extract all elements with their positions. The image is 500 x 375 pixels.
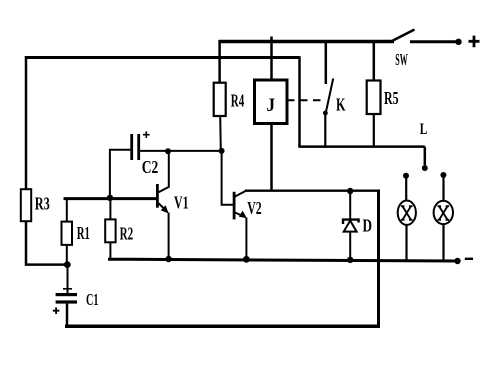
wire R5 bottom lead <box>373 114 375 147</box>
svg-text:V1: V1 <box>174 193 189 213</box>
switch K blade <box>325 79 333 115</box>
switch SW blade <box>391 30 415 42</box>
minus polarity C1 <box>63 288 72 290</box>
svg-text:C1: C1 <box>86 290 99 309</box>
node lamp2 contact <box>440 172 446 178</box>
lamp X1 <box>398 201 416 225</box>
node junction base/C2/R2 <box>107 195 113 201</box>
node V2 emitter junction <box>243 256 250 263</box>
svg-text:C2: C2 <box>142 157 159 177</box>
wire R1 bottom lead <box>66 245 68 265</box>
wire V2 base lead <box>222 151 233 205</box>
svg-text:SW: SW <box>395 50 408 69</box>
wire V2 collector rail <box>245 189 379 191</box>
svg-text:K: K <box>336 94 346 114</box>
resistor R1 <box>62 222 73 245</box>
svg-text:J: J <box>267 95 276 116</box>
node V1 emitter junction <box>165 256 171 262</box>
resistor R4 <box>214 83 226 116</box>
wire top positive rail <box>219 40 394 44</box>
wire right vertical <box>377 190 380 327</box>
switch L common drop <box>424 147 427 165</box>
svg-text:R2: R2 <box>120 224 134 244</box>
wire lamp2 bottom lead <box>442 224 444 261</box>
wire V2 emitter lead <box>245 218 247 261</box>
svg-text:V2: V2 <box>247 198 261 218</box>
transistor V1 emitter with arrow <box>159 203 167 211</box>
transistor V1 bar <box>156 184 159 208</box>
wire V1 base rail <box>64 197 158 200</box>
node SW right terminal dot <box>455 39 461 45</box>
svg-text:D: D <box>363 216 373 236</box>
transistor V1 collector lead <box>159 151 169 192</box>
resistor R5 <box>367 81 381 115</box>
wire J bottom lead <box>270 124 273 191</box>
transistor V2 emitter with arrow <box>235 213 244 217</box>
svg-text:L: L <box>420 121 428 138</box>
diode D bottom lead <box>349 232 351 260</box>
wire bottom negative rail <box>108 259 457 261</box>
relay J box <box>255 80 288 124</box>
wire relay contact rail <box>298 145 425 148</box>
resistor R3 <box>21 189 31 221</box>
node junction R3/R1/C1 <box>64 261 71 268</box>
wire V1 emitter lead <box>168 213 170 260</box>
wire bottom return <box>65 325 380 329</box>
switch SW right contact wire <box>410 40 457 43</box>
capacitor C1 <box>56 293 77 296</box>
node K blade pivot <box>323 111 328 116</box>
wire second rail drop <box>298 56 301 146</box>
diode D triangle <box>344 221 357 232</box>
svg-text:R3: R3 <box>35 194 50 214</box>
node junction R4/V2 base <box>219 148 225 154</box>
dashed link J to K <box>287 99 326 101</box>
capacitor C2 <box>130 134 133 160</box>
wire lamp2 top lead <box>442 175 444 201</box>
diode D cathode bar <box>343 220 359 224</box>
transistor V2 bar <box>233 192 236 220</box>
svg-text:R5: R5 <box>384 88 399 108</box>
wire R4 top lead <box>218 40 221 83</box>
node diode top junction <box>347 188 353 194</box>
svg-text:R1: R1 <box>77 223 90 243</box>
plus polarity C2 <box>143 131 150 138</box>
plus terminal symbol <box>469 36 480 48</box>
capacitor C2 left lead <box>110 150 130 198</box>
minus terminal symbol <box>465 258 473 260</box>
wire K upper contact <box>325 40 328 84</box>
wire left vertical to R3 <box>25 56 28 189</box>
wire R2 top lead <box>109 199 111 220</box>
plus polarity C1 <box>53 307 60 314</box>
capacitor C1 bottom lead <box>66 304 69 327</box>
node lamp1 contact <box>403 173 409 179</box>
svg-text:R4: R4 <box>231 91 244 111</box>
node L common contact <box>422 165 428 171</box>
wire R3 bottom lead <box>26 221 66 264</box>
wire R5 top lead <box>373 40 376 81</box>
node diode bottom junction <box>347 257 353 263</box>
node negative terminal dot <box>454 258 460 264</box>
wire lamp1 bottom lead <box>405 225 407 261</box>
diode D top lead <box>349 191 351 220</box>
wire second rail <box>25 56 300 59</box>
capacitor C1 top lead <box>67 265 69 293</box>
node junction V1 collector <box>165 148 171 154</box>
wire K lower lead <box>324 113 326 148</box>
lamp X2 <box>434 201 453 224</box>
transistor V2 collector lead <box>235 191 246 197</box>
wire R2 bottom lead <box>109 242 111 259</box>
resistor R2 <box>105 219 115 242</box>
wire C2 right lead <box>140 150 222 152</box>
wire lamp1 top lead <box>405 176 407 201</box>
wire R4 bottom lead <box>219 116 222 151</box>
wire J top lead <box>270 37 273 81</box>
wire R1 top lead <box>66 199 68 222</box>
